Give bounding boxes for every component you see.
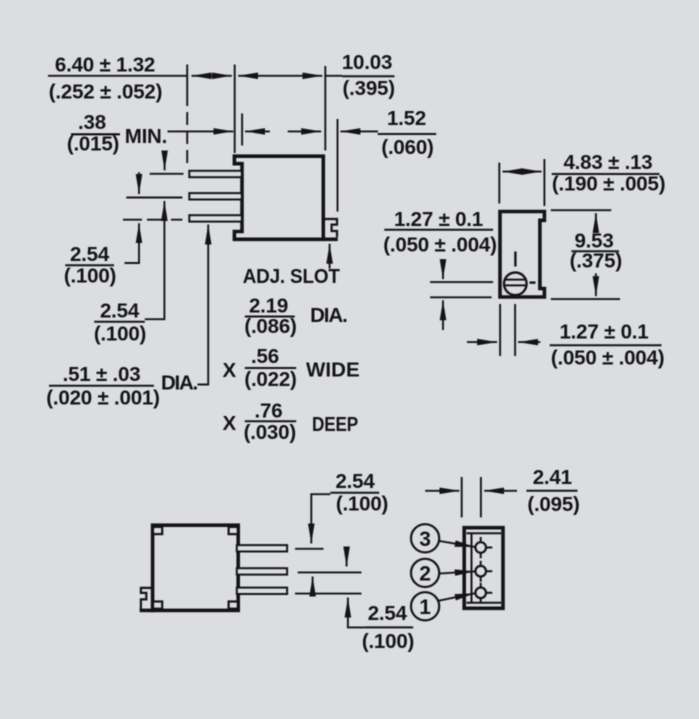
line at body bottom level [430, 296, 492, 298]
adj-slot protrusion (top view, left) [141, 588, 153, 609]
svg-text:(.375): (.375) [570, 250, 622, 273]
fraction bar 1.27 left [384, 229, 493, 231]
body bottom edge extension [323, 238, 338, 242]
svg-text:2.54: 2.54 [100, 300, 140, 323]
extension line 1.27 bottom left [499, 304, 501, 356]
svg-text:(.022): (.022) [244, 368, 296, 391]
svg-text:6.40 ± 1.32: 6.40 ± 1.32 [55, 53, 155, 76]
arrow to body right edge [288, 130, 322, 132]
pin2 level line [126, 197, 182, 199]
svg-text:.56: .56 [251, 345, 279, 368]
arrow down 9.53 [595, 273, 597, 296]
pin B (middle) [237, 568, 287, 574]
dimension arrows 4.83 [503, 171, 542, 173]
arrow up at pin3 line + leader to 2.54 #1 [125, 223, 140, 263]
arrow down at pinB line [346, 553, 348, 567]
pinB level line [298, 571, 362, 573]
svg-text:2.54: 2.54 [335, 470, 375, 493]
arrow up at pin2 line + leader to 2.54 #2 [145, 201, 165, 319]
arrow up 9.53 [595, 213, 597, 232]
fraction bar 2.54 bottom #2 [364, 626, 413, 628]
centerline mark right of screw [530, 281, 536, 283]
fraction bar 2.54 bottom #1 [330, 492, 379, 494]
extension line pin-tip plane [186, 65, 188, 107]
svg-text:DIA.: DIA. [161, 371, 198, 394]
fraction bar 9.53 [571, 250, 619, 252]
svg-text:2.54: 2.54 [368, 602, 408, 625]
body outline (right view) with groove [500, 212, 544, 298]
corner pad BR [229, 602, 238, 609]
pin 2 circle [475, 566, 486, 577]
extension line 1.27 bottom right [514, 304, 516, 356]
svg-text:DEEP: DEEP [312, 413, 358, 436]
pin 1 centerline ticks [480, 583, 482, 587]
circled 3 [411, 524, 439, 552]
pin A (top) [237, 545, 287, 551]
leader DIA. to pin3 [198, 225, 209, 385]
svg-text:(.020 ± .001): (.020 ± .001) [46, 387, 160, 410]
fraction bar .76 [245, 420, 296, 422]
circled 1 [411, 592, 439, 620]
fraction bar 10.03 [342, 75, 394, 77]
svg-text:(.100): (.100) [362, 630, 414, 653]
ADJ. SLOT leader arrow [329, 244, 331, 269]
dimension 6.40: fraction bar + line [48, 75, 187, 77]
dimension arrows 6.40 span [192, 75, 232, 77]
svg-text:(.100): (.100) [94, 322, 146, 345]
svg-text:1.27 ± 0.1: 1.27 ± 0.1 [559, 321, 648, 344]
svg-text:10.03: 10.03 [342, 51, 392, 74]
extension line 4.83 left [498, 163, 500, 204]
fraction bar .51 [49, 385, 154, 387]
leader + arrow down at pinA line [311, 494, 330, 543]
centerline mark above screw [514, 252, 516, 267]
pin 3 (bottom) [189, 215, 242, 221]
svg-text:ADJ. SLOT: ADJ. SLOT [243, 265, 341, 288]
arrow left 1.27 bottom [518, 341, 540, 343]
svg-text:(.395): (.395) [343, 77, 395, 100]
screw slot chords [505, 279, 526, 281]
extension line body right [324, 66, 326, 151]
svg-text:2.41: 2.41 [533, 466, 572, 489]
line at screw center level [430, 281, 493, 283]
svg-text:MIN.: MIN. [125, 125, 167, 148]
arrow up 1.27 left [442, 300, 444, 330]
body bottom edge extension (top view) [140, 609, 154, 613]
corner pad TL [153, 527, 162, 534]
extension line 9.53 top [551, 209, 612, 211]
arrow right 2.41 [425, 490, 459, 492]
extension line 9.53 bottom [551, 298, 620, 300]
svg-text:DIA.: DIA. [310, 304, 348, 327]
corner pad TR [229, 527, 238, 534]
svg-text:.51 ± .03: .51 ± .03 [63, 363, 141, 386]
svg-text:1.52: 1.52 [387, 107, 426, 130]
svg-text:1.27 ± 0.1: 1.27 ± 0.1 [394, 208, 483, 231]
fraction bar 2.54 #2 [94, 321, 145, 323]
svg-text:(.252 ± .052): (.252 ± .052) [49, 80, 163, 103]
dim line stub to 10.03 text [325, 75, 342, 77]
leader arrow to pin 2 [439, 571, 475, 573]
fraction bar 2.54 #1 [65, 264, 114, 266]
svg-text:3: 3 [419, 528, 431, 551]
svg-text:X: X [223, 359, 237, 382]
arrow up at pinC line + leader to 2.54 #2 [348, 598, 364, 628]
svg-text:(.095): (.095) [527, 493, 579, 516]
svg-text:(.086): (.086) [244, 315, 296, 338]
dim line .38 MIN [168, 130, 234, 132]
arrow down 1.27 left [442, 260, 444, 279]
pinA level line [295, 548, 324, 550]
body outline (top view) [153, 525, 239, 610]
svg-text:(.100): (.100) [336, 493, 388, 516]
extension line 2.41 right [480, 477, 482, 517]
pin 3 circle [475, 542, 486, 553]
fraction bar .38 [71, 133, 120, 135]
pin1 level line [150, 173, 184, 175]
inner cover line vertical [471, 533, 473, 602]
leader arrow to pin 3 [438, 541, 474, 547]
svg-text:2.54: 2.54 [70, 243, 110, 266]
svg-text:.76: .76 [255, 399, 283, 422]
inner cover line bottom [467, 602, 502, 604]
pinC level line [295, 593, 362, 595]
svg-text:4.83 ± .13: 4.83 ± .13 [563, 151, 652, 174]
extension line body left [234, 65, 236, 154]
svg-text:(.060): (.060) [381, 136, 433, 159]
pin 2 centerline ticks [480, 561, 482, 565]
svg-text:WIDE: WIDE [306, 359, 360, 382]
arrow right 1.27 bottom [467, 341, 497, 343]
arrow up at pinB line [312, 577, 314, 597]
extension line 2.41 left [461, 477, 463, 517]
body outline (pin view) [464, 528, 503, 609]
fraction bar 2.19 [245, 316, 295, 318]
extension line protrusion right [337, 119, 339, 212]
fraction bar 2.41 [526, 490, 577, 492]
pin 1 (top) [189, 171, 242, 177]
svg-text:(.050 ± .004): (.050 ± .004) [551, 346, 665, 369]
fraction bar 1.52 [378, 133, 437, 135]
arrow down at pin2 line [138, 172, 140, 194]
pin 1 circle [475, 588, 486, 599]
svg-text:X: X [223, 412, 237, 435]
pin C (bottom) [237, 588, 287, 594]
svg-text:2: 2 [419, 563, 431, 586]
extension line 4.83 right [543, 159, 545, 206]
dimension arrows 10.03 span [238, 75, 322, 77]
screw head circle [504, 273, 527, 296]
circled 2 [411, 559, 439, 587]
svg-text:(.030): (.030) [244, 421, 296, 444]
corner pad BL [153, 602, 162, 609]
svg-text:(.100): (.100) [64, 264, 116, 287]
pin 2 (middle) [189, 193, 242, 199]
fraction bar 4.83 [552, 173, 660, 175]
inner cover line top [467, 532, 502, 534]
arrow left at protrusion, tail to 1.52 text [340, 130, 378, 132]
arrow down at pin1 line [164, 153, 166, 171]
arrow left of .38 pair [245, 130, 270, 132]
body outline (side view) [234, 156, 323, 239]
adj-slot protrusion (side view) [325, 219, 338, 237]
leader arrow to pin 1 [438, 593, 475, 601]
svg-text:1: 1 [419, 596, 431, 619]
extension line flange inner [241, 113, 243, 145]
arrow left 2.41 [484, 490, 517, 492]
svg-text:(.050 ± .004): (.050 ± .004) [383, 233, 497, 256]
fraction bar 1.27 bottom [550, 344, 662, 346]
pin3 level dashed line [123, 219, 182, 221]
fraction bar .56 [245, 367, 296, 369]
svg-text:(.190 ± .005): (.190 ± .005) [552, 173, 666, 196]
svg-text:(.015): (.015) [67, 132, 119, 155]
pin 3 centerline ticks [480, 537, 482, 542]
svg-text:.38: .38 [78, 111, 106, 134]
